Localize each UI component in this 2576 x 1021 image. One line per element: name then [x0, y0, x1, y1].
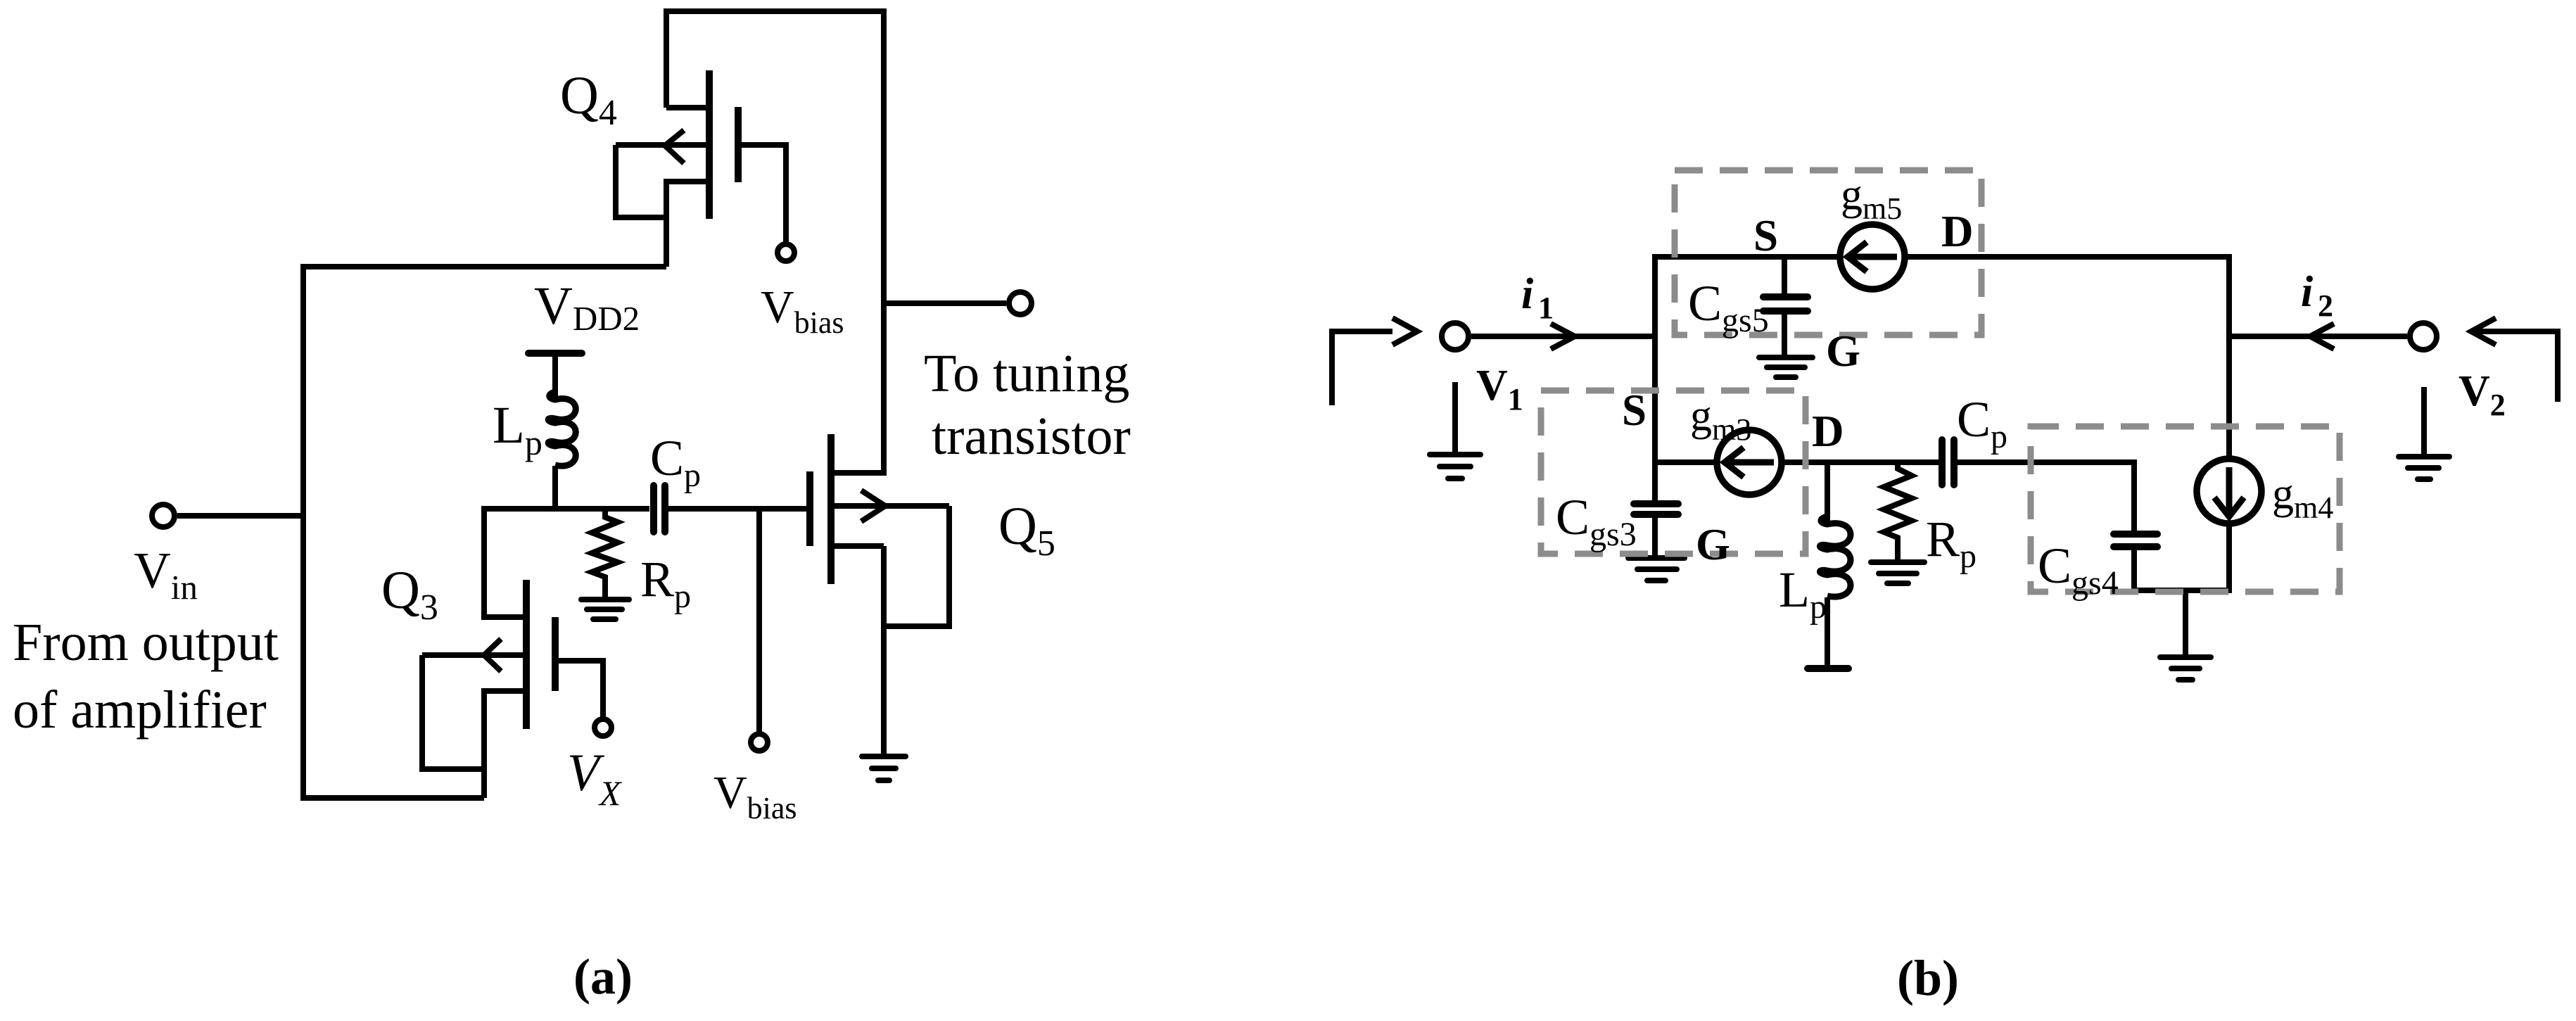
svg-text:i: i — [1521, 270, 1533, 318]
svg-text:Vin: Vin — [134, 542, 198, 607]
source gm5 circle — [1840, 224, 1905, 289]
wire i1 input — [1471, 334, 1655, 339]
dashed box around gm4 — [2031, 426, 2340, 592]
wire mid node left segment — [481, 506, 649, 512]
wire VDD2 stub — [552, 353, 558, 398]
svg-text:gm4: gm4 — [2272, 470, 2333, 525]
transistor Q5 gate bar — [806, 471, 813, 546]
svg-text:Vbias: Vbias — [761, 281, 844, 340]
ground under Rp (b) — [1871, 559, 1924, 565]
node Vin port circle — [152, 505, 175, 527]
arrow i2 direction — [2310, 324, 2334, 349]
arrow inside gm3 — [1727, 459, 1774, 466]
transistor Q3 source stub and wire down — [484, 691, 524, 798]
transistor Q5 channel bar — [827, 434, 835, 584]
wire Q5 source to ground — [881, 546, 887, 756]
capacitor Cgs5 bottom wire — [1782, 314, 1787, 355]
svg-text:D: D — [1812, 407, 1844, 456]
wire Lp branch down — [1825, 462, 1830, 521]
transistor Q5 body tie loop — [884, 506, 949, 626]
wire output to tuning transistor — [884, 300, 1006, 306]
transistor Q3 gate wire to VX — [555, 661, 603, 718]
inductor Lp (b) — [1820, 516, 1851, 597]
wire left vertical bus with top node and bottom wires — [303, 267, 666, 798]
svg-text:Rp: Rp — [1926, 511, 1977, 575]
transistor Q4 body arrow — [665, 130, 684, 163]
capacitor Cgs5 plates — [1763, 293, 1808, 300]
transistor Q5 drain stub — [831, 470, 884, 476]
svg-text:transistor: transistor — [932, 407, 1131, 466]
ground under Cgs5 — [1759, 355, 1813, 360]
transistor Q4 gate tie loop — [616, 145, 666, 217]
arrow i1 direction — [1551, 324, 1575, 349]
transistor Q3 body arrow — [484, 639, 501, 671]
svg-text:VDD2: VDD2 — [534, 277, 640, 338]
wire V2 reference bent arrow — [2471, 331, 2558, 402]
transistor Q3 drain wire — [484, 509, 524, 617]
wire S3 branch to gm3 — [1655, 459, 1715, 465]
svg-text:Cgs5: Cgs5 — [1688, 275, 1769, 339]
arrow inside gm5 — [1850, 254, 1897, 260]
ground under Cgs3 — [1628, 555, 1684, 561]
svg-text:VX: VX — [567, 744, 623, 813]
capacitor Cp right plate — [661, 486, 668, 532]
transistor Q4 gate wire to Vbias — [738, 145, 786, 243]
svg-text:gm3: gm3 — [1690, 392, 1751, 447]
arrow inside gm4 — [2226, 467, 2233, 514]
node VX terminal circle — [595, 719, 611, 736]
svg-text:Q3: Q3 — [381, 561, 438, 628]
wire bottom of gm4 branch and below circle — [2134, 525, 2229, 590]
svg-text:2: 2 — [2318, 288, 2333, 323]
svg-text:of amplifier: of amplifier — [13, 680, 267, 740]
dashed box around gm3 — [1541, 391, 1806, 554]
wire left vertical node (S5/S3/Cgs3) and top line to gm5 — [1655, 257, 1840, 501]
transistor Q4 source stub and wire down to node — [666, 182, 706, 267]
node V1 port circle — [1442, 323, 1468, 350]
wire gm3 D line to Cp — [1783, 459, 1939, 465]
svg-text:G: G — [1826, 326, 1860, 376]
svg-text:(b): (b) — [1897, 950, 1959, 1006]
svg-text:Cp: Cp — [1957, 391, 2007, 455]
svg-text:G: G — [1696, 520, 1730, 569]
svg-text:S: S — [1753, 211, 1778, 260]
svg-text:Cgs4: Cgs4 — [2038, 538, 2119, 602]
transistor Q4 channel bar — [706, 70, 713, 219]
capacitor Cgs3 wire — [1652, 501, 1658, 504]
capacitor Cp (b) plates — [1939, 440, 1946, 485]
transistor Q5 body line — [831, 503, 949, 509]
capacitor Cp left plate — [650, 486, 657, 532]
svg-text:D: D — [1941, 207, 1974, 256]
wire mid node right segment to Q5 gate — [668, 506, 810, 512]
ground under Rp — [581, 597, 629, 602]
svg-text:Lp: Lp — [493, 396, 543, 462]
transistor Q3 gate bar — [552, 617, 559, 691]
ground under V2 — [2421, 387, 2427, 457]
wire ground stub (b right) — [2183, 590, 2188, 654]
ground under Cgs4/gm4 — [2160, 654, 2211, 660]
transistor Q3 body line — [422, 652, 524, 658]
wire Lp to node — [552, 466, 558, 509]
source gm4 circle — [2197, 459, 2261, 524]
dashed box around gm5 — [1541, 170, 2340, 592]
terminal bar under Lp (b) — [1808, 665, 1848, 672]
svg-text:Rp: Rp — [640, 551, 691, 615]
capacitor Cgs4 plates — [2114, 531, 2157, 538]
capacitor Cgs4 bottom wire — [2131, 550, 2137, 590]
svg-text:Cp: Cp — [650, 430, 701, 494]
svg-text:1: 1 — [1538, 291, 1554, 325]
transistor Q3 gate tie loop — [422, 655, 484, 769]
wire top rect: Q4 drain up, across, right bus down — [666, 11, 884, 476]
capacitor Cgs3 plates — [1634, 500, 1678, 507]
svg-text:i: i — [2301, 268, 2313, 316]
svg-text:(a): (a) — [573, 949, 633, 1005]
svg-text:Cgs3: Cgs3 — [1556, 489, 1637, 553]
capacitor Cgs3 bottom wire — [1652, 517, 1658, 556]
inductor Lp — [548, 392, 576, 466]
transistor Q5 body arrow — [861, 490, 885, 521]
power VDD2 supply bar — [528, 350, 582, 357]
ground under V1 — [1452, 382, 1458, 455]
node V2 port circle — [2410, 323, 2437, 350]
transistor Q4 drain stub — [666, 105, 706, 110]
wire Lp (b) to terminal — [1825, 597, 1830, 666]
node Vbias terminal circle (bottom) — [751, 734, 768, 751]
node Vbias terminal circle (top) — [778, 244, 794, 261]
transistor Q4 body line — [616, 142, 706, 148]
wire i2 input — [2229, 334, 2407, 339]
transistor Q3 channel bar — [523, 580, 530, 729]
svg-text:Q5: Q5 — [998, 497, 1055, 564]
ground under Q5 — [862, 754, 906, 759]
svg-text:gm5: gm5 — [1841, 171, 1902, 226]
resistor Rp — [592, 509, 618, 597]
wire V1 reference bent arrow — [1332, 331, 1392, 405]
svg-text:S: S — [1622, 386, 1647, 435]
svg-text:To tuning: To tuning — [924, 344, 1129, 403]
wire Vin to left bus — [177, 513, 303, 519]
wire junction down to Vbias (bottom) — [756, 509, 762, 733]
svg-text:V2: V2 — [2458, 367, 2506, 422]
node output port circle — [1009, 292, 1032, 315]
transistor Q4 gate bar — [735, 107, 742, 182]
capacitor Cgs5 top wire — [1782, 257, 1787, 295]
svg-text:Q4: Q4 — [560, 66, 617, 133]
resistor Rp (b) — [1884, 462, 1912, 559]
svg-text:From output: From output — [13, 613, 279, 672]
svg-text:Vbias: Vbias — [713, 767, 797, 825]
wire Cp to Cgs4 corner — [1957, 462, 2134, 534]
source gm3 circle — [1717, 430, 1782, 495]
svg-text:V1: V1 — [1476, 362, 1523, 417]
wire gm5 to right corner — [1908, 257, 2229, 457]
transistor Q5 source stub — [831, 543, 884, 549]
